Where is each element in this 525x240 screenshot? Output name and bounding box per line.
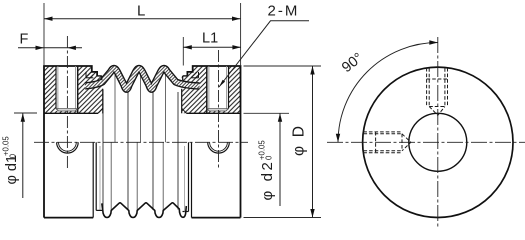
left hub outlines xyxy=(44,66,103,218)
dimension F xyxy=(18,32,82,51)
svg-text:L: L xyxy=(137,3,145,20)
bellows section band (hatched wave) xyxy=(85,69,200,90)
bellows fold lines xyxy=(103,90,178,212)
svg-text:+0.05: +0.05 xyxy=(2,136,11,156)
dimension phi d2 xyxy=(244,113,290,206)
svg-text:φ D: φ D xyxy=(291,124,308,156)
svg-text:L1: L1 xyxy=(202,31,218,47)
end view horizontal centerline xyxy=(327,141,525,143)
dimension L xyxy=(44,3,241,67)
end view outer circle xyxy=(363,67,513,217)
bellows fold lines (crest and tangent lines) xyxy=(111,74,165,212)
bellows external bottom profile xyxy=(93,142,191,217)
svg-text:φ d1: φ d1 xyxy=(4,155,20,185)
right hub outlines xyxy=(182,66,241,218)
left hub section (hatched) xyxy=(44,66,103,113)
svg-text:2-M: 2-M xyxy=(268,2,300,19)
screw centerline left xyxy=(66,36,68,170)
svg-text:0: 0 xyxy=(9,153,18,158)
dimension phi d1 xyxy=(2,113,37,198)
90 degree arc dimension xyxy=(336,40,438,142)
end view bore circle xyxy=(409,113,467,171)
svg-text:φ d2: φ d2 xyxy=(259,160,276,201)
right hub tapped hole xyxy=(207,66,229,113)
left tapped hole (hidden) xyxy=(363,132,411,153)
left hub tapped hole xyxy=(56,66,78,113)
centerline left view axis xyxy=(34,141,248,143)
set screw hole circles (external view) xyxy=(57,142,230,153)
dimension L1 xyxy=(183,31,241,66)
svg-text:0: 0 xyxy=(265,155,274,160)
right hub section (hatched) xyxy=(182,66,241,113)
top tapped hole (hidden) xyxy=(427,68,448,115)
svg-text:F: F xyxy=(20,32,29,48)
end view vertical centerline xyxy=(437,37,439,227)
dimension phi D xyxy=(244,66,322,218)
screw centerline right xyxy=(218,50,220,170)
2-M label and leader xyxy=(219,2,309,87)
